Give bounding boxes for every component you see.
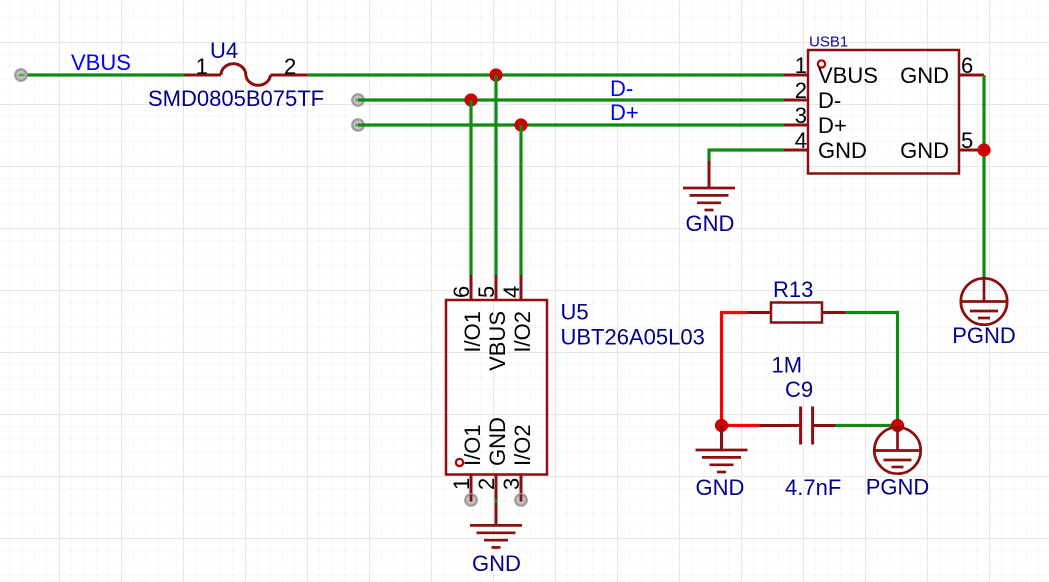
junction D+ bbox=[514, 118, 527, 131]
junction VBUS bbox=[489, 68, 502, 81]
svg-text:GND: GND bbox=[686, 211, 735, 236]
svg-text:3: 3 bbox=[499, 478, 524, 490]
svg-text:USB1: USB1 bbox=[809, 34, 848, 51]
pin 2 (GND) of U5 bbox=[474, 417, 510, 500]
svg-text:5: 5 bbox=[961, 128, 973, 153]
svg-text:C9: C9 bbox=[785, 377, 813, 402]
svg-text:I/O2: I/O2 bbox=[510, 424, 535, 466]
wire D+ down to U5 pin 4 bbox=[519, 125, 522, 276]
svg-text:2: 2 bbox=[284, 54, 296, 79]
svg-text:D+: D+ bbox=[818, 113, 847, 138]
svg-text:4.7nF: 4.7nF bbox=[785, 475, 841, 500]
terminal D- bbox=[352, 94, 363, 105]
resistor R13 bbox=[747, 303, 846, 323]
wire U5 pin 2 stub joint bbox=[494, 499, 497, 503]
svg-text:I/O1: I/O1 bbox=[460, 424, 485, 466]
wire R13 left to GND node bbox=[722, 313, 748, 426]
pin 6 (I/O1) of U5 bbox=[449, 275, 485, 353]
pin 1 (I/O1) of U5 bbox=[449, 424, 485, 500]
ground GND under U5 bbox=[470, 500, 522, 547]
svg-text:2: 2 bbox=[474, 478, 499, 490]
svg-text:VBUS: VBUS bbox=[485, 311, 510, 371]
svg-text:GND: GND bbox=[900, 138, 949, 163]
svg-text:1M: 1M bbox=[772, 353, 803, 378]
pin-1 indicator dot U5 bbox=[456, 459, 463, 466]
svg-text:6: 6 bbox=[961, 53, 973, 78]
svg-text:2: 2 bbox=[795, 78, 807, 103]
wire D- down to U5 pin 6 bbox=[469, 100, 472, 276]
svg-text:PGND: PGND bbox=[866, 475, 930, 500]
svg-text:6: 6 bbox=[449, 286, 474, 298]
svg-text:GND: GND bbox=[472, 551, 521, 576]
svg-text:VBUS: VBUS bbox=[818, 63, 878, 88]
svg-text:D-: D- bbox=[610, 76, 633, 101]
svg-text:5: 5 bbox=[474, 286, 499, 298]
ground GND near USB1 bbox=[683, 161, 735, 210]
esd protection U5 body bbox=[446, 300, 547, 475]
svg-text:1: 1 bbox=[449, 478, 474, 490]
svg-text:U5: U5 bbox=[561, 300, 589, 325]
svg-text:4: 4 bbox=[795, 128, 807, 153]
svg-text:GND: GND bbox=[900, 63, 949, 88]
svg-text:I/O1: I/O1 bbox=[460, 311, 485, 353]
pin 4 (GND) of USB1 bbox=[784, 128, 867, 163]
junction PGND node bbox=[891, 419, 904, 432]
wire C9 left to GND node bbox=[722, 424, 761, 427]
svg-text:U4: U4 bbox=[210, 38, 238, 63]
svg-text:I/O2: I/O2 bbox=[510, 311, 535, 353]
wire USB1 pin 4 to GND bbox=[709, 150, 784, 163]
svg-text:GND: GND bbox=[696, 475, 745, 500]
pin 3 (D+) of USB1 bbox=[784, 103, 847, 138]
svg-text:1: 1 bbox=[795, 53, 807, 78]
wire D+ bbox=[358, 123, 784, 126]
fuse U4 bbox=[185, 64, 308, 86]
power PGND right bbox=[961, 278, 1007, 324]
svg-text:SMD0805B075TF: SMD0805B075TF bbox=[148, 86, 324, 111]
pin 2 (D-) of USB1 bbox=[784, 78, 841, 113]
wire VBUS down to U5 pin 5 bbox=[494, 75, 497, 276]
svg-text:R13: R13 bbox=[773, 277, 813, 302]
svg-text:4: 4 bbox=[499, 286, 524, 298]
wire VBUS fuse to USB1 pin 1 bbox=[308, 73, 784, 76]
svg-text:D-: D- bbox=[818, 88, 841, 113]
connector USB1 body bbox=[808, 50, 959, 174]
wire D- bbox=[358, 98, 784, 101]
svg-text:VBUS: VBUS bbox=[71, 50, 131, 75]
wire USB1 pin 6 down to PGND bbox=[982, 75, 985, 279]
junction at USB1 pin 5 bbox=[977, 143, 990, 156]
terminal U5 pin 1 bbox=[465, 494, 476, 505]
pin-1 indicator dot USB1 bbox=[818, 60, 825, 67]
svg-text:PGND: PGND bbox=[952, 323, 1016, 348]
junction D- bbox=[464, 93, 477, 106]
terminal D+ bbox=[352, 119, 363, 130]
svg-text:GND: GND bbox=[485, 417, 510, 466]
terminal VBUS left bbox=[15, 69, 26, 80]
wire R13 right to PGND node bbox=[846, 313, 898, 426]
power PGND bottom bbox=[874, 427, 920, 473]
svg-text:3: 3 bbox=[795, 103, 807, 128]
svg-text:D+: D+ bbox=[610, 100, 639, 125]
pin 6 (GND) of USB1 bbox=[900, 53, 984, 88]
pin 1 (VBUS) of USB1 bbox=[784, 53, 878, 88]
pin 5 (GND) of USB1 bbox=[900, 128, 984, 163]
pin 5 (VBUS) of U5 bbox=[474, 275, 510, 371]
pin 3 (I/O2) of U5 bbox=[499, 424, 535, 500]
capacitor C9 bbox=[760, 407, 836, 445]
junction GND node bbox=[715, 419, 728, 432]
svg-text:GND: GND bbox=[818, 138, 867, 163]
terminal U5 pin 3 bbox=[515, 494, 526, 505]
wire VBUS left segment bbox=[21, 73, 185, 76]
svg-text:UBT26A05L03: UBT26A05L03 bbox=[561, 325, 705, 350]
pin 4 (I/O2) of U5 bbox=[499, 275, 535, 353]
svg-text:1: 1 bbox=[196, 54, 208, 79]
ground GND near R13 bbox=[696, 426, 748, 473]
wire C9 right to PGND node bbox=[836, 424, 898, 427]
